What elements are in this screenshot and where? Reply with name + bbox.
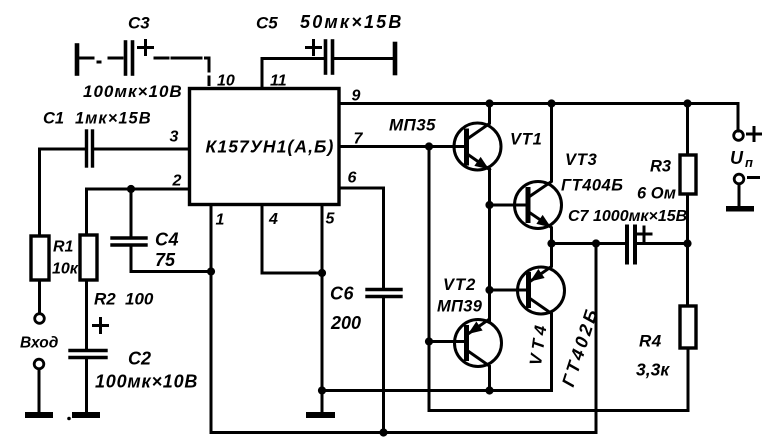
label + (supply) [748,128,761,141]
wire pin 3 to C1 [95,148,190,151]
junction pin2/C4 [127,185,135,193]
svg-text:1: 1 [216,212,225,229]
svg-text:МП35: МП35 [389,116,436,135]
wire node to R4 [686,244,689,307]
junction C4/pin1 [207,267,215,275]
svg-text:100мк×10В: 100мк×10В [83,82,183,101]
wire R2 to C2 [85,280,88,349]
transistor VT3 [490,104,562,244]
resistor R1 [31,236,49,280]
svg-text:ГТ404Б: ГТ404Б [561,177,623,195]
junction VT4 base / VT2 emitter [485,286,493,294]
svg-text:C5: C5 [256,14,278,33]
junction pin7/feedback [425,142,433,150]
wire pin 11 to C5 [262,59,324,89]
junction pin5/ground [318,386,326,394]
capacitor C1 [85,131,88,166]
junction VT2 collector / ground line [485,386,493,394]
capacitor C2 [70,349,106,352]
wire − terminal to ground [738,184,741,206]
svg-text:C6: C6 [330,284,354,304]
svg-text:VT1: VT1 [510,131,543,149]
junction VT2 base [425,337,433,345]
svg-text:U: U [730,148,744,168]
transistor VT1 [454,104,501,174]
svg-text:100мк×10В: 100мк×10В [95,372,198,392]
wire pin 4 [262,205,322,274]
wire output node to C7 [552,242,626,245]
capacitor C4 [112,236,146,239]
junction pin4/pin5 [318,269,326,277]
wire C1 to R1 [40,149,85,236]
ground (C2) [72,412,100,418]
junction VT3 base [485,201,493,209]
svg-text:1000мк×15В: 1000мк×15В [593,208,687,225]
wire rail to R3 [686,104,689,156]
node: supply − terminal [734,174,744,184]
svg-text:2: 2 [172,173,182,190]
wire C5 to right terminal [334,57,395,60]
wire input lower to ground [38,369,41,412]
label − (supply) [749,176,759,179]
wire C7 to R3/R4 node [637,242,688,245]
svg-text:C4: C4 [155,230,179,250]
svg-text:4: 4 [268,211,278,228]
svg-text:R2: R2 [94,290,116,309]
svg-text:10к: 10к [52,261,79,278]
svg-text:200: 200 [330,313,361,333]
capacitor C3 [124,42,128,74]
wire pin2 node to C4 [130,189,133,237]
node: input terminal lower [34,359,44,369]
capacitor C6 [367,288,401,291]
transistor VT4 [490,244,565,391]
junction VT3 collector / rail [547,99,555,107]
svg-text:VT3: VT3 [565,151,598,169]
svg-text:11: 11 [270,73,287,90]
svg-text:3: 3 [170,129,179,146]
svg-text:3,3к: 3,3к [636,360,670,380]
wire C6 to bootstrap line [382,298,385,433]
svg-text:C3: C3 [128,14,150,33]
svg-text:10: 10 [217,73,235,90]
node: input terminal upper [35,314,45,324]
svg-text:К157УН1(А,Б): К157УН1(А,Б) [206,137,335,157]
wire C4 to pin 1 [131,247,211,272]
svg-text:п: п [745,155,753,170]
ground (input) [25,412,53,418]
svg-text:1мк×15В: 1мк×15В [75,110,152,128]
resistor R2 [80,235,97,280]
junction rail/R3 [683,99,691,107]
svg-text:6 Ом: 6 Ом [637,185,676,203]
wire R3 to node [686,194,689,244]
op-amp IC U1 [190,89,340,205]
wire pin 2 to R2 [87,189,190,235]
wire VT1 emitter to VT3/VT4 bases [488,170,491,321]
wire pin 6 to C6 [339,188,384,288]
junction VT1 collector / rail [485,99,493,107]
capacitor C5 [324,41,328,73]
svg-text:7: 7 [354,131,364,148]
wire pin 9 positive supply rail [339,104,738,132]
svg-text:C1: C1 [43,110,64,128]
wire C2 to ground [85,359,88,412]
svg-text:R3: R3 [650,158,671,176]
wire ground line to output stage [322,389,552,392]
junction C7/R3/R4 [683,239,691,247]
svg-text:МП39: МП39 [437,298,483,316]
svg-text:100: 100 [125,290,154,309]
wire (dashed) terminal to C3 [80,57,122,60]
junction output node [547,239,555,247]
node: external terminal bar (C3 left) [75,46,80,74]
wire pin 5 [321,205,324,392]
svg-text:75: 75 [155,250,176,270]
wire pin 7 to VT1 base [339,145,465,148]
capacitor C7 [625,227,629,263]
ground (supply) [726,206,754,212]
resistor R3 [680,155,696,194]
ground (pin 5) [321,391,324,412]
svg-text:VT2: VT2 [443,276,476,294]
wire (dashed) C3 to pin 10 [155,58,209,85]
resistor R4 [680,306,696,348]
svg-text:R1: R1 [53,239,74,256]
svg-text:50мк×15В: 50мк×15В [300,12,404,32]
svg-text:9: 9 [352,88,361,105]
wire R1 to input terminal [38,280,41,314]
svg-text:R4: R4 [639,332,662,351]
svg-text:6: 6 [348,170,357,187]
junction bootstrap tap [592,239,600,247]
transistor VT2 [429,290,502,391]
wire feedback pin7 node to R4 bottom [429,147,688,411]
node: external terminal bar (C5 right) [393,44,398,73]
wire pin 1 [210,205,213,433]
wire bootstrap C7 node to pin 1 [211,244,596,433]
svg-text:C7: C7 [568,208,590,225]
node: supply + terminal [734,131,744,141]
svg-text:C2: C2 [128,349,151,369]
junction C6/bootstrap [379,428,387,436]
svg-text:5: 5 [326,211,336,228]
svg-text:Вход: Вход [20,335,59,352]
